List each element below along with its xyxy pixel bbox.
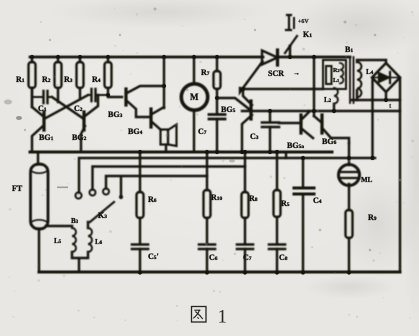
transistor BG5 [242,89,252,152]
piezo FT [31,152,49,272]
resistor R9 [346,184,353,272]
inductor L4 [357,60,386,100]
wire bridge bottom arm [352,92,400,100]
wire bottom rail [39,271,400,274]
svg-text:C5': C5' [148,252,159,261]
capacitor C6 [199,245,215,273]
capacitor C8 [269,245,285,273]
SCR anode cathode [262,50,278,65]
capacitor C3 [262,111,279,152]
transistor BG3 [126,86,164,117]
battery clip terminals [286,15,294,30]
caption 图 1 [192,307,207,323]
svg-text:M: M [190,92,199,102]
motor M [181,57,207,152]
lamp ML [339,165,360,186]
transistor BG1 [32,88,44,152]
transistor BG6 [314,115,349,143]
resistor R10 [204,152,211,244]
transistor BG2 [81,95,98,152]
relay B3 coil L5 [72,226,76,252]
wire K1 branch down to BG6 collector [313,57,315,116]
capacitor C1 [32,91,52,103]
resistor R2 [55,57,62,102]
relay K2 box [323,60,346,89]
capacitor C2 [88,89,108,101]
resistor R8 [242,152,249,244]
capacitor C7 [209,115,225,153]
svg-text:→: → [293,69,300,77]
resistor R6 [137,152,144,243]
wire BG3 base from R4 node [108,96,122,98]
svg-text:ML: ML [361,176,373,184]
relay B3 coil L6 [88,222,92,252]
terminal T3 [103,176,207,195]
wire cross coupling C1 to BG2 base [52,97,84,119]
capacitor C5 [132,245,148,273]
svg-text:SCR: SCR [268,69,284,78]
svg-text:+6V: +6V [298,19,309,25]
speaker Y [161,125,177,153]
wire right bus down [399,78,401,272]
resistor R5 [274,152,281,244]
resistor R7 [214,57,221,114]
resistor R3 [77,57,84,99]
transistor BG4 [151,107,164,130]
label t mark [389,102,392,110]
wire mid supply rail [242,110,400,112]
svg-text:FT: FT [12,184,23,193]
wire BG5 collector line [243,88,323,90]
switch K1 [285,36,297,57]
wire FT to relay coils [46,225,72,227]
wire lamp feed [348,143,350,165]
resistor R4 [105,57,112,95]
inductor L2 [334,88,338,111]
capacitor C7b [237,245,253,273]
resistor R1 [29,57,36,107]
scan artifacts [4,100,235,189]
wire coil bottoms [72,252,88,272]
wire bridge left arm down [371,78,373,158]
wire R7 to BG5 base [217,98,249,109]
bridge rectifier D [372,63,400,92]
switch K3 [90,177,123,223]
capacitor C4 [294,158,314,272]
terminal T1 [75,158,375,199]
terminal T2 [90,167,246,196]
wire top supply rail [30,56,350,59]
wire stub C4 branch [285,152,287,158]
wire cross coupling C2 to BG1 base [44,95,88,119]
wire SCR gate [240,62,263,93]
wire BG3 BG4 collector feed [163,57,165,108]
transistor BG5a [279,111,313,138]
transformer B1 core [350,57,354,103]
wire lower rail [30,151,332,154]
svg-text:1: 1 [218,307,228,328]
